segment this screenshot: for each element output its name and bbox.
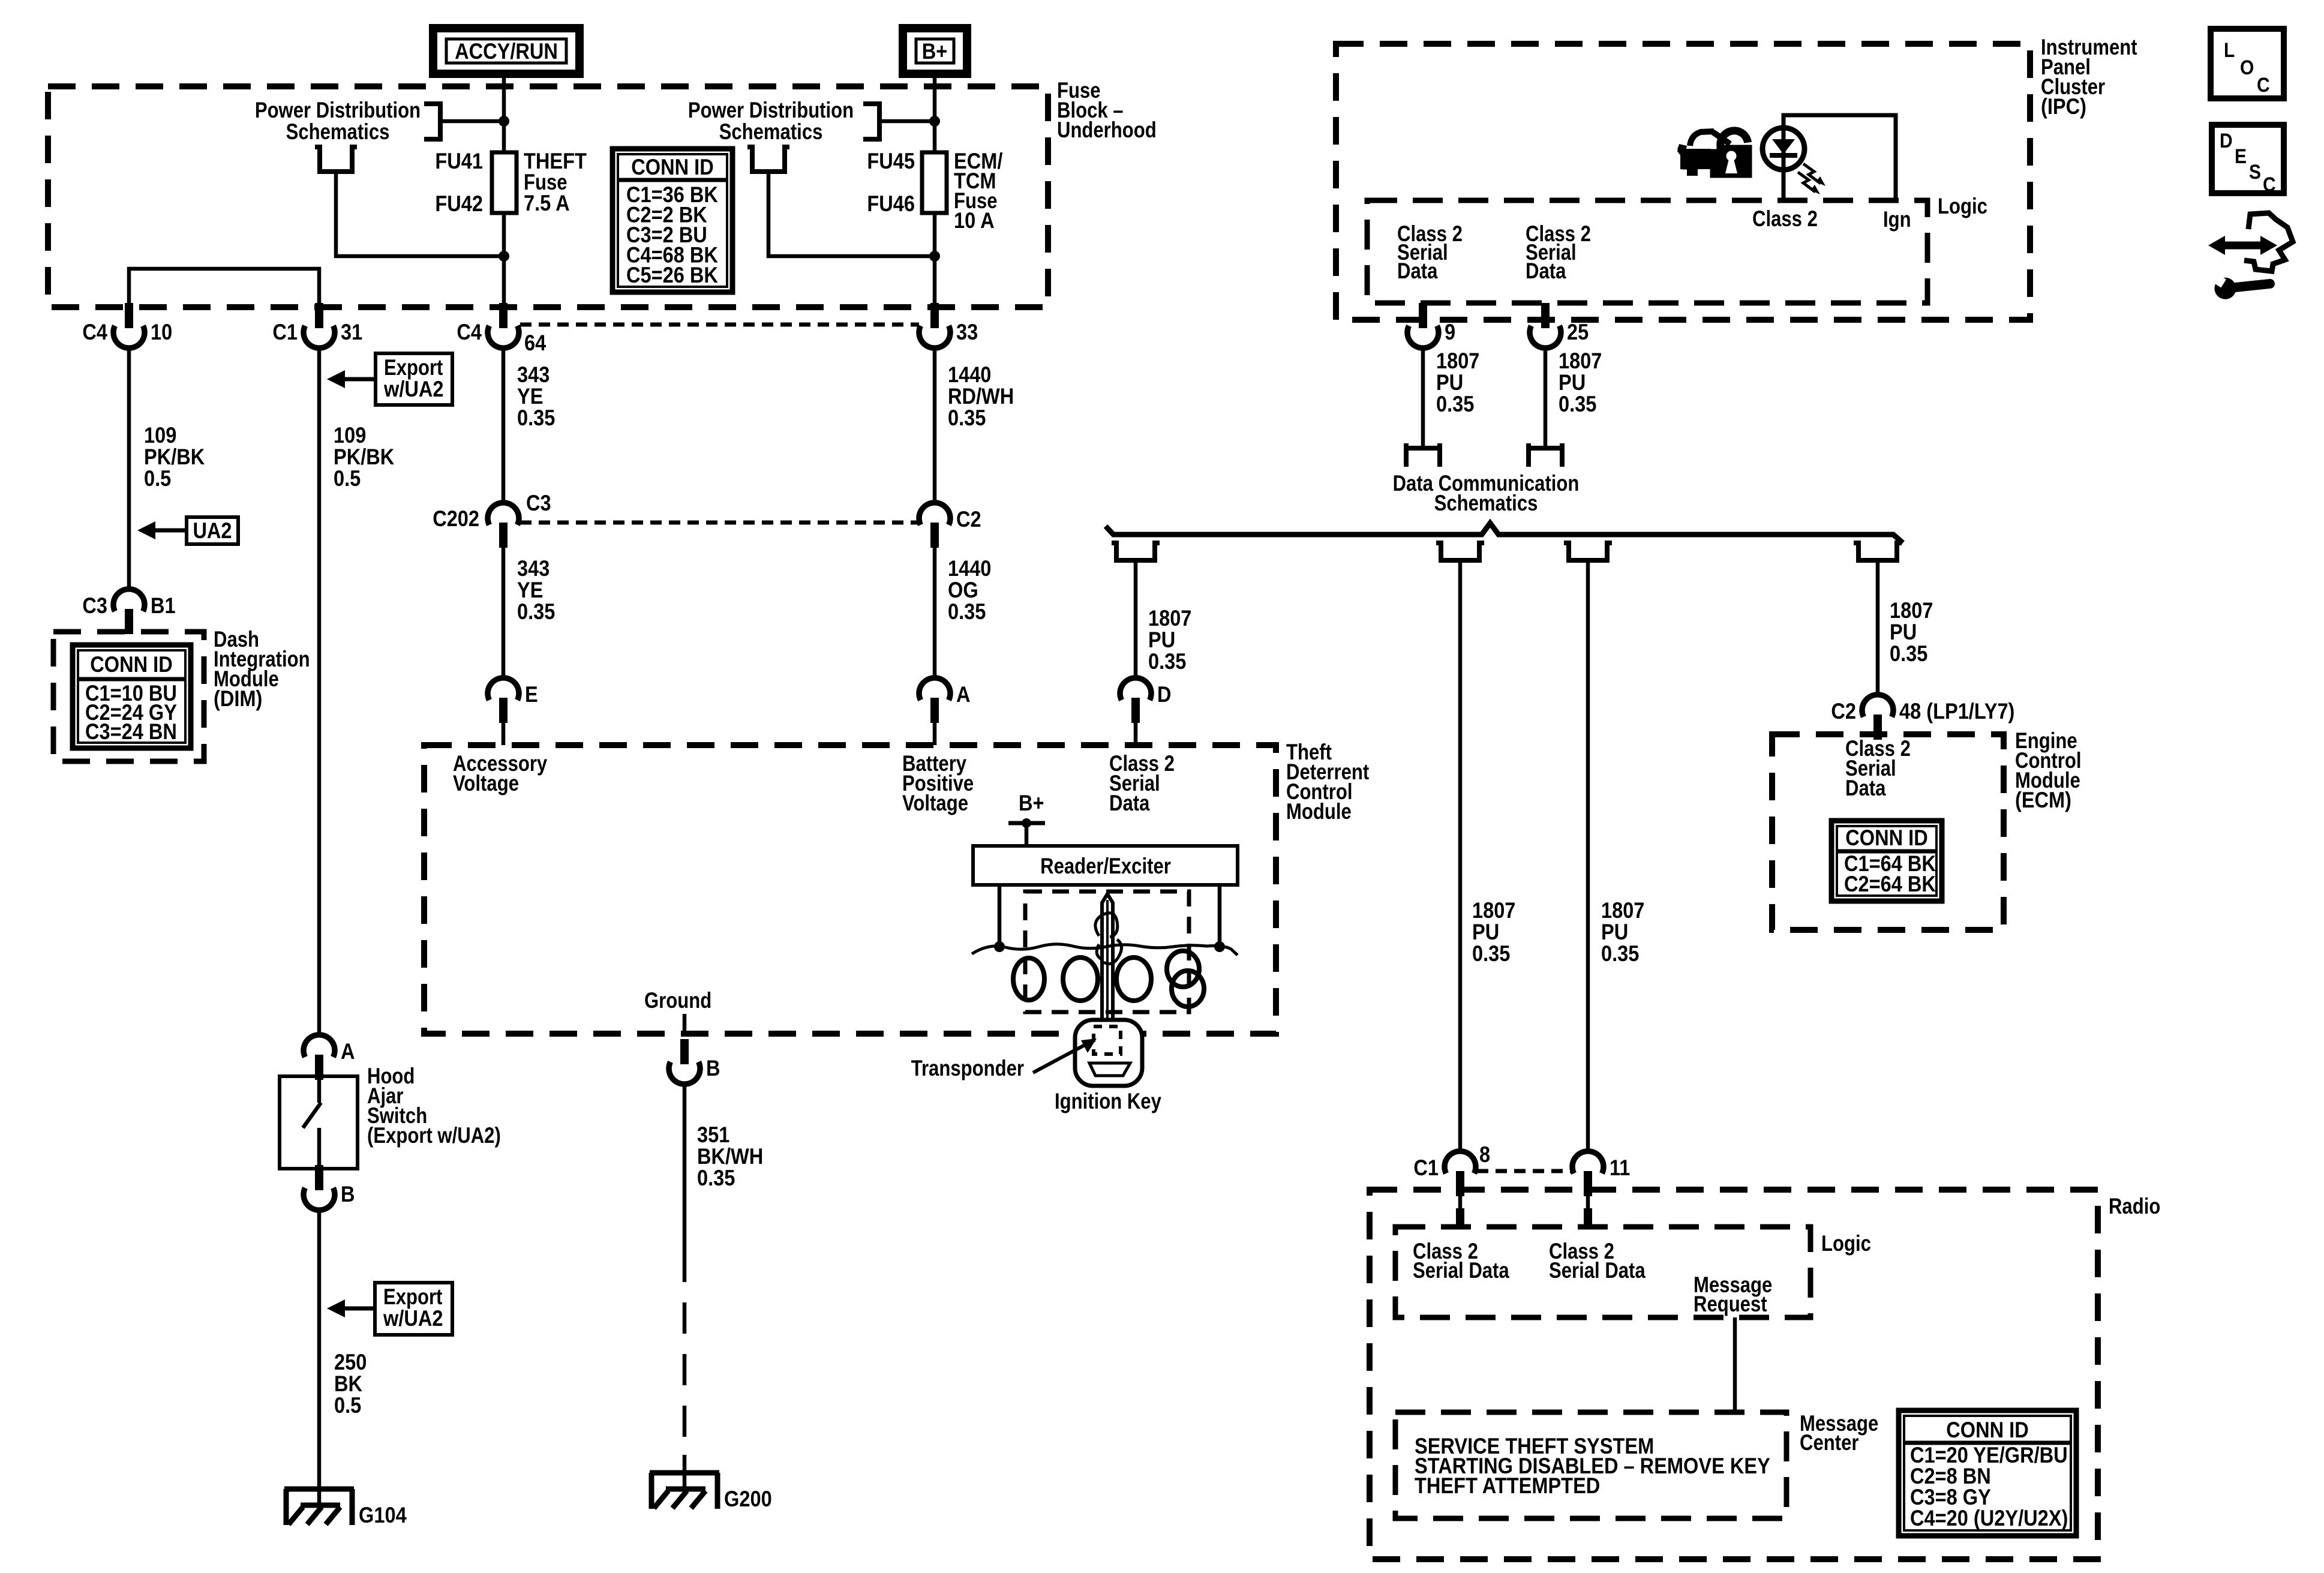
wire 109 PK/BK pin31 to hood switch bbox=[317, 347, 322, 1036]
svg-text:25: 25 bbox=[1567, 320, 1589, 344]
wire into theft module (A) bbox=[933, 723, 937, 745]
lower reference bracket (left) bbox=[315, 147, 357, 172]
ground G200 bbox=[650, 1470, 719, 1476]
wire 351 BK/WH bbox=[683, 1083, 687, 1251]
svg-text:CONN ID: CONN ID bbox=[1845, 825, 1928, 850]
connector pin 11 bbox=[1572, 1151, 1604, 1173]
svg-text:1807: 1807 bbox=[1601, 898, 1644, 923]
svg-text:(Export w/UA2): (Export w/UA2) bbox=[367, 1123, 501, 1148]
fuse FU45/FU46 ECM/TCM bbox=[922, 152, 947, 213]
wire into theft module bbox=[502, 723, 506, 745]
svg-text:B: B bbox=[706, 1056, 720, 1080]
svg-text:343: 343 bbox=[517, 556, 550, 581]
wire 343 YE segment 1 bbox=[502, 347, 506, 505]
svg-text:FU46: FU46 bbox=[867, 191, 915, 216]
svg-text:B1: B1 bbox=[151, 593, 176, 618]
fuse FU41/FU42 THEFT bbox=[492, 152, 517, 213]
transponder dashed square bbox=[1094, 1026, 1121, 1054]
svg-text:OG: OG bbox=[948, 578, 978, 602]
connector pin 25 bbox=[1541, 303, 1550, 328]
svg-text:Class 2: Class 2 bbox=[1752, 206, 1818, 231]
bracket (pin 25 reference) bbox=[1529, 443, 1562, 467]
svg-text:Schematics: Schematics bbox=[286, 119, 390, 144]
svg-text:PK/BK: PK/BK bbox=[334, 445, 395, 469]
connector C1 pin 8 bbox=[1445, 1151, 1476, 1173]
svg-text:B: B bbox=[341, 1182, 355, 1206]
key head slot bbox=[1089, 1063, 1130, 1076]
svg-text:Data: Data bbox=[1526, 259, 1566, 283]
key neck bbox=[1092, 1022, 1122, 1035]
connector C4 pin 64 bbox=[499, 303, 508, 328]
svg-text:11: 11 bbox=[1610, 1155, 1630, 1180]
svg-text:7.5 A: 7.5 A bbox=[524, 191, 570, 215]
svg-text:BK: BK bbox=[334, 1371, 362, 1396]
connector C1 pin 31 bbox=[315, 303, 323, 328]
wire 343 YE segment 2 bbox=[502, 548, 506, 680]
junction bbox=[929, 251, 940, 262]
wires reader to exciter coil bbox=[998, 885, 1002, 947]
bracket to theft module (D) bbox=[1112, 543, 1160, 560]
svg-text:E: E bbox=[525, 682, 538, 707]
LED telltale wire loop bbox=[1783, 115, 1896, 200]
svg-text:0.5: 0.5 bbox=[334, 1393, 361, 1418]
hood ajar switch box bbox=[280, 1076, 358, 1169]
dotted connector line pins 8-11 bbox=[1477, 1169, 1571, 1173]
svg-text:B+: B+ bbox=[1019, 791, 1044, 815]
wire bus to radio pin 11 bbox=[1586, 563, 1590, 1152]
reader/exciter box bbox=[973, 846, 1238, 885]
svg-text:Center: Center bbox=[1800, 1430, 1859, 1455]
bracket (pin 9 reference) bbox=[1406, 443, 1440, 467]
wire lower bracket to fuse line (right) bbox=[768, 174, 935, 256]
svg-text:Ground: Ground bbox=[644, 988, 711, 1013]
svg-text:B+: B+ bbox=[922, 39, 948, 64]
svg-text:A: A bbox=[341, 1039, 355, 1064]
Export w/UA2 reference box (lower) bbox=[375, 1283, 452, 1335]
wire pin8 into radio bbox=[1458, 1196, 1463, 1208]
svg-text:PU: PU bbox=[1890, 620, 1917, 644]
wire ACCY/RUN feed to THEFT fuse bbox=[502, 74, 506, 152]
inline connector C202 pin C3 bbox=[488, 503, 519, 525]
svg-text:1807: 1807 bbox=[1472, 898, 1515, 923]
svg-text:1440: 1440 bbox=[948, 362, 991, 387]
ECM dashed box bbox=[1772, 734, 2004, 930]
wire bus to radio pin 8 bbox=[1458, 563, 1463, 1152]
feeder wire to pins 10 and 31 bbox=[129, 269, 319, 304]
svg-text:Serial Data: Serial Data bbox=[1549, 1258, 1646, 1283]
svg-text:E: E bbox=[2235, 145, 2247, 168]
svg-text:Power Distribution: Power Distribution bbox=[688, 98, 854, 122]
svg-text:Radio: Radio bbox=[2109, 1194, 2160, 1218]
svg-text:C3: C3 bbox=[82, 593, 107, 618]
svg-text:C2: C2 bbox=[956, 507, 981, 532]
key cuts squiggle bbox=[1095, 913, 1122, 964]
wire 250 BK to G104 bbox=[317, 1209, 322, 1505]
coil loop 4 (double) bbox=[1167, 951, 1199, 987]
connector C4 pin 10 bbox=[125, 303, 133, 328]
message center dashed box bbox=[1395, 1412, 1786, 1518]
wire pin 25 to bus bbox=[1544, 347, 1548, 448]
radio logic dashed box bbox=[1395, 1227, 1810, 1317]
connector pin A (theft module) bbox=[919, 678, 950, 700]
DESC icon box bbox=[2212, 125, 2284, 193]
svg-text:Schematics: Schematics bbox=[1434, 491, 1538, 515]
svg-text:C4=20 (U2Y/U2X): C4=20 (U2Y/U2X) bbox=[1910, 1506, 2068, 1530]
transponder arrow bbox=[1033, 1045, 1085, 1073]
LED telltale symbol bbox=[1762, 128, 1804, 170]
svg-text:PU: PU bbox=[1148, 628, 1175, 652]
service icon double arrow bbox=[2223, 242, 2263, 250]
svg-text:Export: Export bbox=[383, 1284, 442, 1309]
ignition key head bbox=[1075, 1020, 1142, 1086]
svg-text:0.35: 0.35 bbox=[697, 1166, 735, 1190]
svg-text:10 A: 10 A bbox=[954, 208, 995, 233]
svg-text:C2: C2 bbox=[1831, 699, 1856, 724]
car mirror bbox=[1677, 144, 1687, 153]
wire bracket to fuse line (right) bbox=[879, 119, 935, 124]
svg-text:Data: Data bbox=[1845, 776, 1886, 800]
svg-text:8: 8 bbox=[1479, 1142, 1490, 1167]
svg-text:(ECM): (ECM) bbox=[2015, 788, 2071, 812]
dotted connector line pins 64-33 bbox=[520, 323, 919, 327]
svg-text:1807: 1807 bbox=[1890, 598, 1933, 623]
svg-text:31: 31 bbox=[341, 320, 362, 344]
wire pin 9 to bus bbox=[1421, 347, 1425, 448]
svg-text:PU: PU bbox=[1559, 370, 1586, 395]
svg-text:9: 9 bbox=[1445, 320, 1455, 344]
svg-text:0.35: 0.35 bbox=[1472, 941, 1510, 966]
connector pin B (theft module ground) bbox=[680, 1039, 689, 1064]
data bus bar bbox=[1106, 523, 1903, 543]
svg-text:109: 109 bbox=[144, 423, 176, 448]
switch contacts and blade bbox=[317, 1076, 322, 1103]
security car/lock icon bbox=[1680, 149, 1711, 169]
lower reference bracket (right) bbox=[747, 147, 789, 172]
service icon part outline bbox=[2244, 213, 2293, 271]
svg-text:64: 64 bbox=[524, 331, 547, 355]
svg-text:Ign: Ign bbox=[1883, 207, 1911, 232]
svg-text:CONN ID: CONN ID bbox=[90, 652, 173, 677]
coil loop 3 bbox=[1116, 957, 1151, 1001]
instrument panel cluster dashed box bbox=[1336, 44, 2030, 320]
junction bbox=[499, 116, 509, 127]
svg-text:YE: YE bbox=[517, 384, 543, 409]
bracket to radio pin 11 bbox=[1564, 543, 1612, 560]
svg-text:PU: PU bbox=[1472, 920, 1499, 944]
svg-text:YE: YE bbox=[517, 578, 543, 602]
connector pin A (hood ajar switch) bbox=[304, 1035, 335, 1057]
padlock shackle bbox=[1716, 127, 1748, 152]
dashed wire continuation to G200 bbox=[683, 1251, 687, 1455]
svg-text:351: 351 bbox=[697, 1122, 729, 1147]
exciter coil wavy line bbox=[972, 944, 1238, 955]
svg-text:FU41: FU41 bbox=[435, 149, 483, 173]
wire B+ feed to ECM/TCM fuse bbox=[933, 74, 937, 152]
svg-text:C2=64 BK: C2=64 BK bbox=[1844, 872, 1936, 896]
service icon wrench bbox=[2212, 268, 2276, 301]
svg-text:Export: Export bbox=[384, 355, 443, 380]
svg-text:0.35: 0.35 bbox=[1890, 641, 1927, 666]
svg-text:C3=24 BN: C3=24 BN bbox=[85, 719, 177, 744]
svg-text:0.35: 0.35 bbox=[1559, 392, 1596, 416]
inner dashed box (exciter) bbox=[1025, 891, 1189, 1012]
svg-text:33: 33 bbox=[956, 320, 978, 344]
svg-text:C: C bbox=[2263, 173, 2276, 196]
svg-text:THEFT ATTEMPTED: THEFT ATTEMPTED bbox=[1415, 1473, 1600, 1498]
junction bbox=[1214, 941, 1225, 952]
DIM module dashed box bbox=[53, 632, 204, 761]
svg-text:FU42: FU42 bbox=[435, 191, 483, 216]
ECM CONN ID table bbox=[1831, 821, 1942, 901]
svg-text:PU: PU bbox=[1436, 370, 1463, 395]
svg-text:0.35: 0.35 bbox=[1436, 392, 1474, 416]
connector pin 33 bbox=[930, 303, 939, 328]
power feed box B+ bbox=[903, 28, 967, 74]
connector pin D bbox=[1120, 678, 1151, 700]
svg-text:A: A bbox=[956, 682, 971, 707]
car windshield bbox=[1713, 132, 1730, 144]
svg-text:w/UA2: w/UA2 bbox=[383, 1306, 443, 1331]
svg-text:D: D bbox=[2220, 130, 2233, 152]
svg-text:C202: C202 bbox=[433, 506, 479, 531]
IPC logic dashed box bbox=[1367, 200, 1927, 303]
svg-text:UA2: UA2 bbox=[193, 518, 232, 543]
DIM CONN ID table bbox=[73, 645, 191, 748]
svg-text:FU45: FU45 bbox=[867, 149, 915, 173]
svg-text:CONN ID: CONN ID bbox=[1946, 1418, 2029, 1442]
svg-text:0.35: 0.35 bbox=[517, 599, 555, 624]
svg-text:109: 109 bbox=[334, 423, 366, 448]
wire bracket to fuse line bbox=[440, 119, 504, 124]
LED light rays bbox=[1803, 164, 1821, 184]
junction bbox=[929, 116, 940, 127]
theft deterrent control module dashed box bbox=[424, 745, 1276, 1034]
ignition key shaft bbox=[1102, 894, 1113, 1035]
svg-text:Ignition Key: Ignition Key bbox=[1055, 1089, 1161, 1113]
svg-text:Voltage: Voltage bbox=[453, 771, 519, 795]
power feed box ACCY/RUN bbox=[433, 28, 580, 74]
radio CONN ID table bbox=[1899, 1410, 2076, 1536]
svg-text:Request: Request bbox=[1694, 1292, 1767, 1316]
connector C3 pin B1 bbox=[113, 589, 145, 611]
svg-text:C3: C3 bbox=[526, 491, 551, 515]
svg-text:G104: G104 bbox=[359, 1503, 407, 1527]
svg-text:Serial Data: Serial Data bbox=[1413, 1258, 1509, 1283]
connector pin 9 bbox=[1419, 303, 1427, 328]
Export arrow (lower) bbox=[341, 1307, 375, 1311]
junction bbox=[994, 941, 1005, 952]
dotted connector line C202 bbox=[520, 521, 919, 525]
svg-text:S: S bbox=[2249, 161, 2261, 184]
svg-text:Voltage: Voltage bbox=[902, 791, 968, 815]
fuse block dashed box bbox=[48, 86, 1048, 307]
svg-text:Data: Data bbox=[1397, 259, 1438, 283]
svg-text:0.35: 0.35 bbox=[1601, 941, 1639, 966]
CONN ID table (fuse block) bbox=[612, 149, 732, 292]
svg-text:C4: C4 bbox=[82, 320, 107, 344]
svg-text:C1: C1 bbox=[1413, 1155, 1439, 1180]
coil loop 1 bbox=[1013, 958, 1044, 1000]
svg-text:w/UA2: w/UA2 bbox=[383, 377, 443, 401]
svg-text:G200: G200 bbox=[724, 1487, 772, 1511]
connector C2 pin 48 bbox=[1862, 695, 1893, 717]
padlock body bbox=[1710, 145, 1752, 178]
svg-text:C4: C4 bbox=[457, 320, 482, 344]
svg-text:CONN ID: CONN ID bbox=[631, 155, 714, 179]
svg-text:L: L bbox=[2224, 39, 2235, 62]
wire bus to pin D bbox=[1134, 563, 1138, 680]
svg-text:D: D bbox=[1157, 682, 1172, 707]
svg-text:Logic: Logic bbox=[1821, 1231, 1871, 1256]
radio dashed box bbox=[1370, 1190, 2098, 1559]
svg-text:C5=26 BK: C5=26 BK bbox=[626, 263, 718, 287]
car roof line bbox=[1690, 131, 1714, 146]
svg-text:1807: 1807 bbox=[1148, 606, 1191, 631]
wire pin11 into radio bbox=[1586, 1196, 1590, 1208]
wire lower bracket to fuse line bbox=[336, 174, 504, 256]
svg-text:Power Distribution: Power Distribution bbox=[255, 98, 421, 122]
bracket to radio pin 8 bbox=[1436, 543, 1484, 560]
svg-text:Schematics: Schematics bbox=[719, 119, 823, 144]
padlock keyhole bbox=[1727, 151, 1737, 161]
ground G104 bbox=[284, 1487, 354, 1492]
svg-text:0.5: 0.5 bbox=[334, 466, 361, 491]
bracket to ECM bbox=[1854, 543, 1902, 560]
svg-text:ACCY/RUN: ACCY/RUN bbox=[455, 39, 558, 64]
wire message request to message center bbox=[1733, 1317, 1737, 1412]
coil loop 2 bbox=[1063, 957, 1098, 1001]
svg-text:BK/WH: BK/WH bbox=[697, 1144, 763, 1169]
svg-text:(DIM): (DIM) bbox=[214, 686, 262, 711]
connector pin B (hood ajar switch) bbox=[315, 1165, 323, 1190]
wire ground to pin B bbox=[683, 1014, 687, 1034]
wire 1440 OG bbox=[933, 548, 937, 680]
svg-text:1807: 1807 bbox=[1559, 349, 1602, 373]
svg-text:PK/BK: PK/BK bbox=[144, 445, 205, 469]
inline connector pin C2 bbox=[919, 503, 950, 525]
svg-text:1440: 1440 bbox=[948, 556, 991, 581]
svg-text:0.5: 0.5 bbox=[144, 466, 171, 491]
LOC icon box bbox=[2211, 29, 2284, 98]
svg-text:Reader/Exciter: Reader/Exciter bbox=[1040, 854, 1171, 878]
svg-text:RD/WH: RD/WH bbox=[948, 384, 1014, 409]
UA2 arrow bbox=[152, 529, 187, 533]
svg-text:Underhood: Underhood bbox=[1057, 118, 1157, 142]
svg-text:10: 10 bbox=[151, 320, 172, 344]
Export arrow bbox=[341, 377, 376, 382]
svg-text:1807: 1807 bbox=[1436, 349, 1479, 373]
svg-text:0.35: 0.35 bbox=[1148, 649, 1186, 674]
svg-text:(IPC): (IPC) bbox=[2041, 94, 2086, 119]
svg-text:0.35: 0.35 bbox=[948, 599, 986, 624]
UA2 reference box bbox=[187, 517, 238, 544]
svg-text:0.35: 0.35 bbox=[948, 406, 986, 430]
svg-text:PU: PU bbox=[1601, 920, 1628, 944]
svg-text:Module: Module bbox=[1286, 799, 1352, 824]
wire 1440 RD/WH bbox=[933, 347, 937, 505]
svg-text:Data: Data bbox=[1109, 791, 1150, 815]
wire into theft module (D) bbox=[1134, 723, 1138, 745]
svg-text:Transponder: Transponder bbox=[911, 1056, 1024, 1080]
svg-text:343: 343 bbox=[517, 362, 550, 387]
connector pin E bbox=[488, 678, 519, 700]
junction bbox=[499, 251, 509, 262]
svg-text:O: O bbox=[2240, 56, 2254, 79]
svg-text:250: 250 bbox=[334, 1350, 367, 1374]
svg-text:48 (LP1/LY7): 48 (LP1/LY7) bbox=[1899, 699, 2014, 724]
wire bus to ECM bbox=[1876, 563, 1880, 697]
svg-text:C1: C1 bbox=[272, 320, 298, 344]
svg-text:0.35: 0.35 bbox=[517, 406, 555, 430]
wire 109 PK/BK to DIM bbox=[127, 347, 131, 590]
Export w/UA2 reference box bbox=[376, 353, 452, 405]
svg-text:C: C bbox=[2257, 74, 2270, 97]
svg-text:Logic: Logic bbox=[1938, 194, 1987, 218]
